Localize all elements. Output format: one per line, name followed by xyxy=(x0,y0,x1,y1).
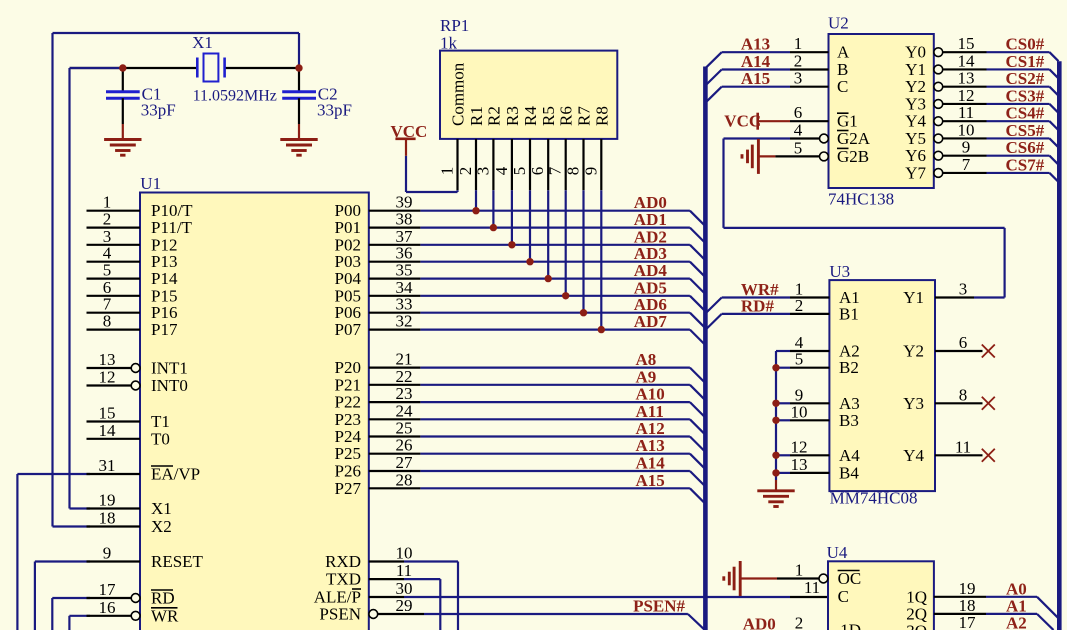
svg-text:Y4: Y4 xyxy=(903,446,924,465)
svg-text:8: 8 xyxy=(959,385,968,404)
svg-text:A2: A2 xyxy=(1006,613,1027,630)
svg-text:RESET: RESET xyxy=(151,552,204,571)
svg-text:11: 11 xyxy=(955,437,971,456)
svg-text:AD1: AD1 xyxy=(634,210,667,229)
svg-text:Y2: Y2 xyxy=(903,342,924,361)
svg-text:G2A: G2A xyxy=(837,129,871,148)
svg-text:OC: OC xyxy=(838,569,862,588)
svg-text:A15: A15 xyxy=(741,69,770,88)
svg-text:P27: P27 xyxy=(335,479,362,498)
svg-text:Y3: Y3 xyxy=(903,394,924,413)
svg-text:3Q: 3Q xyxy=(906,621,927,630)
svg-text:RXD: RXD xyxy=(325,552,361,571)
svg-text:P21: P21 xyxy=(335,375,361,394)
svg-text:4: 4 xyxy=(492,166,511,175)
svg-text:6: 6 xyxy=(794,103,803,122)
svg-text:CS6#: CS6# xyxy=(1006,138,1045,157)
svg-text:U2: U2 xyxy=(828,14,849,33)
svg-text:A13: A13 xyxy=(741,35,770,54)
svg-text:22: 22 xyxy=(396,367,413,386)
svg-text:A11: A11 xyxy=(636,402,664,421)
svg-text:10: 10 xyxy=(958,120,975,139)
svg-text:A12: A12 xyxy=(636,419,665,438)
svg-text:2: 2 xyxy=(103,210,112,229)
svg-text:A8: A8 xyxy=(636,350,657,369)
svg-text:24: 24 xyxy=(396,401,414,420)
svg-text:9: 9 xyxy=(962,138,971,157)
svg-text:X1: X1 xyxy=(151,499,172,518)
svg-text:6: 6 xyxy=(528,167,547,176)
svg-text:MM74HC08: MM74HC08 xyxy=(830,489,918,508)
svg-text:A14: A14 xyxy=(636,454,666,473)
svg-text:1k: 1k xyxy=(440,34,458,53)
svg-text:P23: P23 xyxy=(335,410,361,429)
svg-text:23: 23 xyxy=(396,384,413,403)
svg-text:Y3: Y3 xyxy=(905,94,926,113)
svg-text:33pF: 33pF xyxy=(317,101,352,120)
svg-text:INT0: INT0 xyxy=(151,376,188,395)
svg-text:74HC138: 74HC138 xyxy=(828,190,894,209)
svg-text:11: 11 xyxy=(804,578,820,597)
svg-text:A4: A4 xyxy=(839,446,860,465)
svg-text:CS5#: CS5# xyxy=(1006,121,1045,140)
svg-text:26: 26 xyxy=(396,436,413,455)
svg-text:PSEN#: PSEN# xyxy=(633,597,685,616)
svg-text:A9: A9 xyxy=(636,367,657,386)
svg-text:13: 13 xyxy=(958,69,975,88)
svg-text:3: 3 xyxy=(473,167,492,176)
svg-text:8: 8 xyxy=(103,312,112,331)
svg-text:33pF: 33pF xyxy=(141,101,176,120)
svg-text:5: 5 xyxy=(103,261,112,280)
svg-text:CS4#: CS4# xyxy=(1006,104,1045,123)
svg-text:VCC: VCC xyxy=(391,122,428,141)
svg-text:3: 3 xyxy=(959,280,968,299)
svg-text:P24: P24 xyxy=(335,427,362,446)
svg-text:7: 7 xyxy=(546,166,565,175)
svg-text:14: 14 xyxy=(958,51,976,70)
svg-text:9: 9 xyxy=(103,544,112,563)
svg-text:21: 21 xyxy=(396,350,413,369)
svg-text:R1: R1 xyxy=(467,106,486,126)
svg-text:11: 11 xyxy=(396,561,412,580)
svg-text:38: 38 xyxy=(396,210,413,229)
svg-text:AD4: AD4 xyxy=(634,261,668,280)
svg-text:A: A xyxy=(837,43,850,62)
svg-text:U4: U4 xyxy=(827,543,848,562)
svg-text:CS1#: CS1# xyxy=(1006,52,1045,71)
svg-text:T1: T1 xyxy=(151,412,170,431)
svg-text:VCC: VCC xyxy=(724,112,761,131)
svg-text:1D: 1D xyxy=(840,621,861,630)
svg-text:B2: B2 xyxy=(839,358,859,377)
svg-text:CS7#: CS7# xyxy=(1006,155,1045,174)
svg-text:R6: R6 xyxy=(557,106,576,126)
svg-text:B4: B4 xyxy=(839,463,859,482)
svg-text:5: 5 xyxy=(510,167,529,176)
svg-text:11: 11 xyxy=(958,103,974,122)
svg-text:16: 16 xyxy=(99,598,116,617)
svg-text:32: 32 xyxy=(396,312,413,331)
svg-text:EA/VP: EA/VP xyxy=(151,465,200,484)
svg-text:P26: P26 xyxy=(335,462,361,481)
svg-text:Y1: Y1 xyxy=(903,288,924,307)
svg-text:Y0: Y0 xyxy=(905,43,926,62)
svg-text:G2B: G2B xyxy=(837,147,869,166)
svg-text:AD7: AD7 xyxy=(634,312,668,331)
svg-text:27: 27 xyxy=(396,453,414,472)
svg-text:G1: G1 xyxy=(837,112,858,131)
svg-text:WR: WR xyxy=(151,606,179,625)
svg-text:U3: U3 xyxy=(829,262,850,281)
svg-text:P04: P04 xyxy=(335,269,362,288)
svg-text:Y1: Y1 xyxy=(905,60,926,79)
svg-text:10: 10 xyxy=(791,402,808,421)
svg-text:17: 17 xyxy=(99,580,117,599)
svg-text:P01: P01 xyxy=(335,218,361,237)
svg-text:R8: R8 xyxy=(592,106,611,126)
svg-text:P14: P14 xyxy=(151,269,178,288)
svg-text:X2: X2 xyxy=(151,517,172,536)
svg-text:RD#: RD# xyxy=(741,296,775,315)
svg-text:4: 4 xyxy=(794,121,803,140)
svg-text:15: 15 xyxy=(99,404,116,423)
svg-text:14: 14 xyxy=(99,421,117,440)
svg-text:5: 5 xyxy=(795,350,804,369)
svg-text:B: B xyxy=(837,60,848,79)
svg-text:B3: B3 xyxy=(839,411,859,430)
svg-text:RD: RD xyxy=(151,589,175,608)
svg-text:CS2#: CS2# xyxy=(1006,69,1045,88)
svg-text:CS3#: CS3# xyxy=(1006,86,1045,105)
svg-text:19: 19 xyxy=(99,491,116,510)
svg-text:9: 9 xyxy=(581,167,600,176)
svg-text:A15: A15 xyxy=(636,471,665,490)
svg-text:2: 2 xyxy=(795,614,804,630)
svg-text:X1: X1 xyxy=(192,33,213,52)
svg-text:10: 10 xyxy=(396,544,413,563)
svg-text:R7: R7 xyxy=(575,106,594,126)
svg-text:17: 17 xyxy=(959,613,977,630)
svg-text:7: 7 xyxy=(962,155,971,174)
svg-text:2: 2 xyxy=(794,52,803,71)
svg-text:3: 3 xyxy=(794,69,803,88)
svg-text:35: 35 xyxy=(396,261,413,280)
svg-text:25: 25 xyxy=(396,419,413,438)
svg-text:R2: R2 xyxy=(484,106,503,126)
svg-text:12: 12 xyxy=(958,86,975,105)
svg-text:C: C xyxy=(838,587,849,606)
svg-text:12: 12 xyxy=(99,368,116,387)
svg-text:RP1: RP1 xyxy=(440,16,469,35)
svg-text:Y5: Y5 xyxy=(905,129,926,148)
svg-text:T0: T0 xyxy=(151,429,170,448)
svg-text:11.0592MHz: 11.0592MHz xyxy=(193,88,277,105)
svg-text:R5: R5 xyxy=(539,106,558,126)
svg-text:AD0: AD0 xyxy=(743,615,776,630)
svg-text:5: 5 xyxy=(794,138,803,157)
svg-text:1: 1 xyxy=(794,34,803,53)
svg-text:P22: P22 xyxy=(335,393,361,412)
svg-text:2: 2 xyxy=(795,296,804,315)
svg-text:Y7: Y7 xyxy=(905,163,926,182)
svg-text:U1: U1 xyxy=(140,174,161,193)
svg-text:28: 28 xyxy=(396,470,413,489)
svg-text:B1: B1 xyxy=(839,304,859,323)
svg-text:P07: P07 xyxy=(335,320,362,339)
svg-text:31: 31 xyxy=(99,456,116,475)
svg-text:A13: A13 xyxy=(636,436,665,455)
svg-text:P20: P20 xyxy=(335,358,361,377)
svg-text:13: 13 xyxy=(99,350,116,369)
svg-text:A14: A14 xyxy=(741,52,771,71)
svg-text:C: C xyxy=(837,77,848,96)
svg-text:2: 2 xyxy=(456,167,475,176)
svg-text:P25: P25 xyxy=(335,444,361,463)
svg-text:12: 12 xyxy=(791,437,808,456)
svg-text:INT1: INT1 xyxy=(151,359,188,378)
svg-text:R4: R4 xyxy=(521,106,540,126)
svg-text:CS0#: CS0# xyxy=(1006,35,1045,54)
svg-text:P11/T: P11/T xyxy=(151,218,193,237)
svg-text:13: 13 xyxy=(791,455,808,474)
svg-text:R3: R3 xyxy=(503,106,522,126)
svg-text:Y2: Y2 xyxy=(905,77,926,96)
svg-text:Common: Common xyxy=(449,62,468,126)
svg-text:18: 18 xyxy=(99,509,116,528)
svg-text:6: 6 xyxy=(959,333,968,352)
svg-text:Y6: Y6 xyxy=(905,146,926,165)
svg-text:Y4: Y4 xyxy=(905,112,926,131)
svg-text:A10: A10 xyxy=(636,385,665,404)
svg-text:8: 8 xyxy=(564,167,583,176)
svg-text:PSEN: PSEN xyxy=(319,605,361,624)
svg-text:15: 15 xyxy=(958,34,975,53)
svg-text:29: 29 xyxy=(396,596,413,615)
svg-text:P17: P17 xyxy=(151,320,178,339)
svg-text:TXD: TXD xyxy=(326,570,361,589)
svg-text:1: 1 xyxy=(795,561,804,580)
svg-text:1: 1 xyxy=(438,167,457,176)
